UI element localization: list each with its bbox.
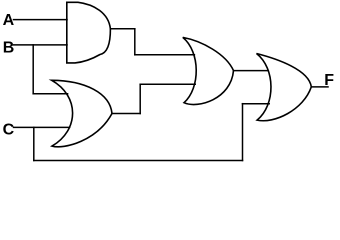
wire AND output [110, 28, 134, 30]
wire B to AND gate [14, 44, 68, 46]
wire OR1 output riser [139, 84, 141, 113]
wire riser to OR3 [242, 104, 244, 161]
wire to OR3 bottom input [243, 103, 270, 105]
svg-text:C: C [3, 122, 15, 139]
wire bottom rail [34, 160, 243, 162]
wire C branch vertical down [33, 127, 35, 160]
OR gate U3 middle [183, 37, 234, 104]
svg-text:A: A [3, 12, 15, 29]
wire OR3 output to F [311, 86, 328, 88]
OR gate U4 right (output F) [257, 54, 312, 121]
wire to OR2 bottom input [140, 83, 195, 85]
wire OR2 output to OR3 [234, 70, 269, 72]
wire AND output drop [134, 29, 136, 55]
wire B branch vertical down [32, 45, 34, 94]
AND gate U1 (inputs A,B) [67, 2, 111, 63]
wire B branch to OR1 top input [33, 93, 67, 95]
wire C to OR1 bottom input [14, 126, 70, 128]
OR gate U2 bottom-left (inputs B,C) [52, 80, 112, 147]
wire A to AND gate [14, 19, 68, 21]
svg-text:B: B [3, 40, 15, 57]
wire to OR2 top input [135, 54, 195, 56]
wire OR1 output [112, 113, 140, 115]
